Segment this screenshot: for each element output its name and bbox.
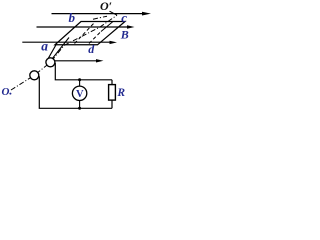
shaft arrow from ring 2	[55, 59, 104, 62]
svg-text:a: a	[41, 38, 48, 53]
field line B3 (bottom)	[22, 41, 117, 44]
svg-text:O: O	[2, 86, 10, 98]
junction dot bottom	[78, 107, 81, 110]
brush wire from ring 2	[55, 63, 112, 80]
svg-text:V: V	[76, 89, 84, 100]
dashed hidden edge A inside coil	[75, 24, 94, 44]
svg-text:O′: O′	[100, 0, 112, 13]
field line B1 (top)	[52, 12, 152, 16]
svg-text:B: B	[120, 28, 129, 42]
svg-text:d: d	[88, 42, 95, 56]
voltmeter circle	[72, 86, 86, 100]
dashed hidden edge B inside coil	[89, 32, 101, 44]
resistor R box	[109, 85, 116, 101]
solid interior diagonal P (upper part of hidden edge)	[101, 22, 113, 32]
junction dot top	[78, 78, 81, 81]
voltmeter stubs	[79, 80, 81, 86]
axis O-O' dash-dot line (lower part through rings)	[11, 15, 117, 90]
lead wire 1 coil to ring	[48, 45, 56, 59]
svg-text:R: R	[116, 87, 125, 99]
period dot after O	[9, 93, 11, 95]
svg-text:c: c	[121, 10, 127, 25]
brush wire from ring 1	[39, 76, 112, 108]
svg-text:b: b	[69, 10, 76, 25]
axis O-O' dash-dot line (shallow final part)	[93, 16, 107, 19]
diagonal Q from O' to corner c	[110, 11, 118, 15]
lead wire 2 coil to ring	[52, 38, 69, 59]
resistor branch wires	[111, 80, 113, 85]
coil abcd (parallelogram)	[55, 22, 125, 45]
field line B2 (middle)	[37, 25, 135, 28]
slip ring 1 (lower)	[30, 71, 39, 80]
slip ring 2 (upper)	[46, 58, 55, 67]
